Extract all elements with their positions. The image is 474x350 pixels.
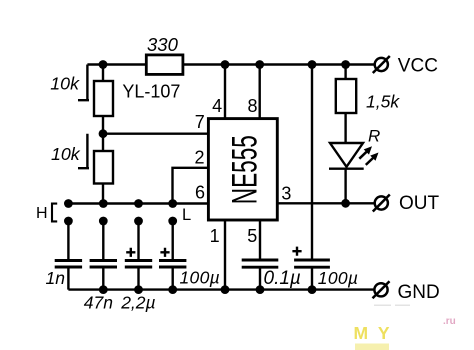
svg-text:4: 4 [212, 96, 222, 116]
svg-text:VCC: VCC [398, 56, 438, 77]
svg-text:5: 5 [247, 226, 257, 246]
svg-text:OUT: OUT [399, 193, 440, 214]
svg-text:100µ: 100µ [180, 268, 220, 288]
svg-text:47n: 47n [84, 293, 113, 313]
svg-text:8: 8 [247, 96, 257, 116]
svg-text:YL-107: YL-107 [122, 81, 180, 101]
svg-text:R: R [368, 127, 380, 146]
svg-text:7: 7 [195, 112, 205, 132]
svg-text:10k: 10k [51, 144, 81, 164]
svg-text:2,2µ: 2,2µ [120, 293, 155, 313]
svg-text:6: 6 [195, 183, 205, 203]
svg-text:1n: 1n [46, 268, 65, 288]
svg-text:1,5k: 1,5k [366, 91, 400, 111]
svg-text:100µ: 100µ [318, 268, 358, 288]
svg-text:0.1µ: 0.1µ [264, 268, 301, 289]
svg-text:L: L [182, 206, 191, 224]
svg-text:330: 330 [147, 34, 179, 55]
svg-text:10k: 10k [50, 74, 80, 94]
svg-text:1: 1 [210, 226, 220, 246]
svg-text:NE555: NE555 [225, 135, 265, 204]
svg-text:3: 3 [281, 184, 291, 204]
svg-text:2: 2 [194, 148, 204, 168]
svg-text:.ru: .ru [443, 316, 456, 327]
svg-text:GND: GND [398, 282, 440, 303]
svg-text:H: H [36, 205, 48, 222]
